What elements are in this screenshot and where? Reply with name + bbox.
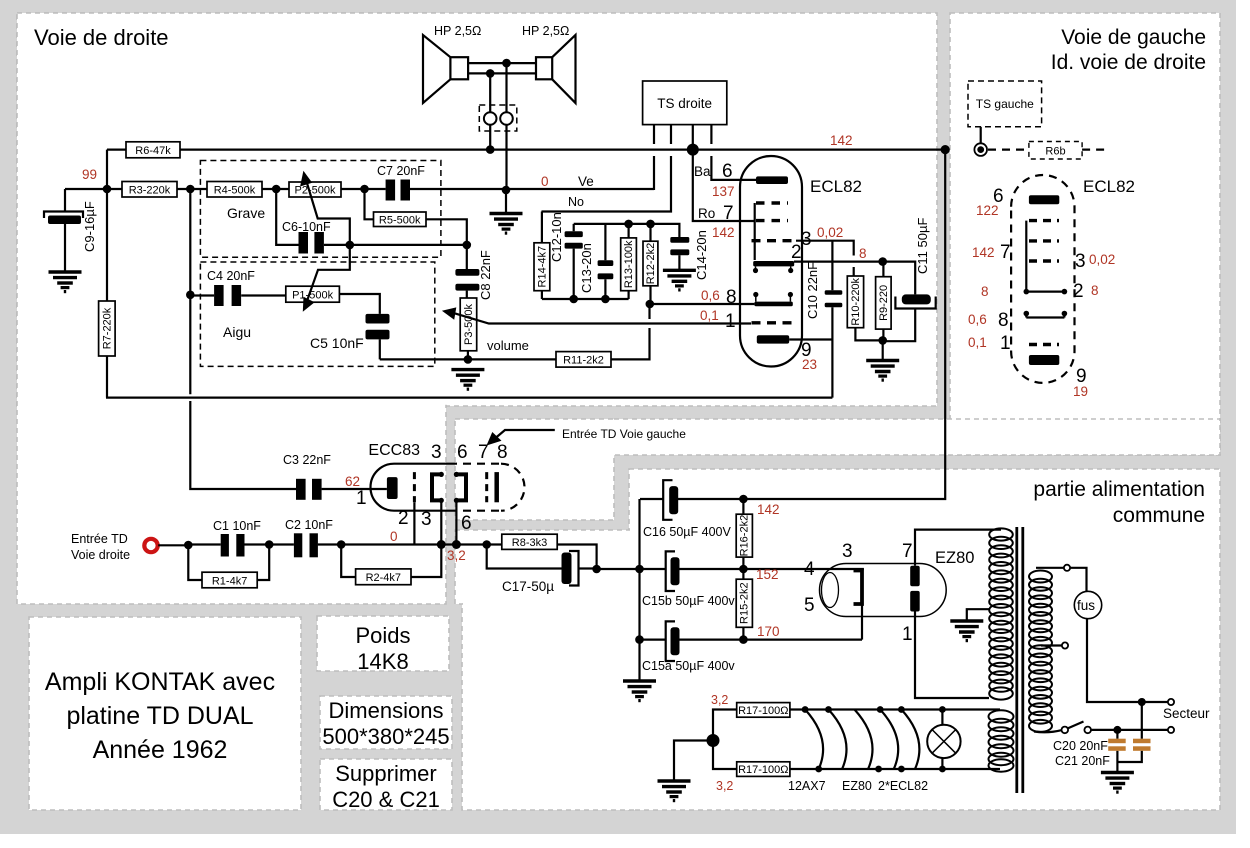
- wire volume ground row: [380, 304, 650, 359]
- cathode bracket pin3: [432, 474, 441, 500]
- connector: [1025, 221, 1027, 292]
- svg-text:23: 23: [802, 357, 817, 372]
- svg-text:R7-220k: R7-220k: [102, 307, 114, 349]
- svg-text:Dimensions: Dimensions: [329, 698, 444, 723]
- junction: [360, 185, 369, 194]
- transformer core: [1017, 527, 1023, 793]
- grid dash pin7: [485, 472, 488, 502]
- ground under P3: [451, 370, 484, 390]
- svg-text:Supprimer: Supprimer: [335, 761, 436, 786]
- svg-text:3: 3: [421, 509, 432, 530]
- svg-text:Grave: Grave: [227, 205, 265, 221]
- capacitor C21: [1117, 702, 1141, 762]
- svg-text:C16 50µF 400V: C16 50µF 400V: [643, 525, 731, 539]
- capacitor C9: [44, 212, 83, 219]
- svg-text:7: 7: [723, 203, 734, 224]
- svg-text:commune: commune: [1113, 504, 1205, 527]
- svg-text:R6-47k: R6-47k: [135, 145, 171, 157]
- white panel: Dimensions: [320, 696, 452, 749]
- svg-text:EZ80: EZ80: [935, 549, 974, 567]
- anode bar pin1: [387, 477, 398, 499]
- mains switch: [1034, 730, 1062, 732]
- svg-text:99: 99: [82, 167, 97, 182]
- wire heater bottom line: [790, 768, 1000, 770]
- svg-text:8: 8: [1091, 283, 1099, 298]
- pin2 drop: [413, 502, 415, 544]
- resistor R3: [122, 182, 177, 198]
- svg-text:142: 142: [972, 245, 995, 260]
- svg-text:TS droite: TS droite: [657, 96, 712, 111]
- resistor R9: [876, 277, 892, 329]
- wiper arrow P1: [308, 245, 350, 300]
- resistor R8: [502, 534, 557, 549]
- resistor R10: [847, 276, 863, 328]
- white panel: top main (voie de droite): [17, 13, 937, 406]
- svg-text:3: 3: [842, 541, 853, 562]
- wire mains mid tap: [1041, 644, 1062, 646]
- wire mains top tap: [1036, 567, 1064, 569]
- svg-text:Ve: Ve: [578, 174, 594, 189]
- connector circles: [484, 112, 497, 125]
- svg-text:Ba: Ba: [694, 164, 711, 179]
- capacitor C17: [487, 545, 597, 569]
- wire C15a row: [640, 638, 863, 640]
- svg-text:P2-500k: P2-500k: [295, 185, 336, 197]
- capacitor C8: [466, 245, 468, 269]
- svg-text:0,1: 0,1: [700, 308, 719, 323]
- resistor R13: [627, 224, 629, 299]
- svg-text:6: 6: [457, 442, 468, 463]
- svg-text:HP 2,5Ω: HP 2,5Ω: [434, 24, 481, 38]
- wire C15b row: [597, 568, 864, 570]
- junction: [878, 257, 887, 266]
- resistor R7: [106, 189, 108, 398]
- svg-text:C20 20nF: C20 20nF: [1053, 739, 1108, 753]
- capacitor C15a: [666, 621, 675, 661]
- svg-text:R16-2k2: R16-2k2: [739, 515, 751, 557]
- svg-text:0: 0: [541, 174, 549, 189]
- capacitor C10: [831, 241, 833, 398]
- wire C6 branch: [276, 189, 467, 245]
- transformer heater winding: [989, 710, 1014, 771]
- junction: [103, 185, 112, 194]
- wire pin2 row: [794, 262, 915, 295]
- resistor R5: [374, 212, 427, 227]
- dashed box Grave: [200, 161, 441, 258]
- tube EZ80 envelope: [820, 564, 947, 617]
- svg-text:Aigu: Aigu: [223, 324, 251, 340]
- junction: [739, 565, 748, 574]
- transformer HT winding: [989, 528, 1013, 699]
- capacitor C16: [640, 498, 663, 500]
- ground under C15: [623, 681, 656, 701]
- svg-text:R1-4k7: R1-4k7: [212, 575, 247, 587]
- transformer TS gauche: [968, 81, 1042, 127]
- triode grid dashes: [756, 201, 788, 204]
- triode connector: [754, 203, 756, 260]
- wire HT vertical: [678, 150, 945, 499]
- svg-text:Ampli KONTAK avec: Ampli KONTAK avec: [45, 668, 275, 696]
- svg-text:C9-16µF: C9-16µF: [82, 201, 97, 252]
- wire pin3 to R10: [796, 241, 854, 276]
- wire R6 left leg: [106, 150, 108, 189]
- svg-text:C11 50µF: C11 50µF: [915, 218, 930, 274]
- ground under C20 C21: [1101, 773, 1134, 793]
- resistor R4: [207, 182, 262, 198]
- svg-text:62: 62: [345, 474, 360, 489]
- svg-text:R13-100k: R13-100k: [623, 240, 635, 288]
- resistor R17 top: [713, 710, 737, 741]
- svg-text:1: 1: [725, 311, 736, 332]
- svg-text:C6-10nF: C6-10nF: [282, 220, 331, 234]
- svg-text:2: 2: [398, 508, 409, 529]
- wire 142 bus: [107, 149, 945, 151]
- svg-text:R15-2k2: R15-2k2: [739, 582, 751, 624]
- dashed box Aigu: [200, 262, 434, 366]
- svg-text:C15b 50µF 400v: C15b 50µF 400v: [642, 594, 735, 608]
- svg-text:6: 6: [722, 161, 733, 182]
- ground under R9: [882, 340, 884, 360]
- svg-text:R5-500k: R5-500k: [379, 214, 421, 226]
- svg-text:2: 2: [1073, 281, 1084, 302]
- svg-text:R2-4k7: R2-4k7: [366, 572, 401, 584]
- wire filter bottom row: [542, 298, 629, 300]
- white panel: right (voie de gauche): [950, 13, 1220, 455]
- wire bottom return: [106, 397, 832, 399]
- potentiometer P3 volume: [460, 298, 477, 351]
- svg-text:12AX7: 12AX7: [788, 779, 826, 793]
- EZ80 cathode bracket: [854, 571, 863, 605]
- svg-text:6: 6: [461, 513, 472, 534]
- TS gauche pin: [980, 127, 982, 144]
- pin6 drop: [455, 500, 457, 544]
- svg-text:1: 1: [902, 624, 913, 645]
- capacitor C9 wire: [64, 189, 66, 212]
- wire vertical x190: [190, 189, 296, 489]
- svg-text:C12-10n: C12-10n: [549, 212, 564, 262]
- ground under C14: [663, 270, 696, 290]
- wire input line: [158, 543, 502, 546]
- svg-text:19: 19: [1073, 384, 1088, 399]
- svg-text:P3-500k: P3-500k: [463, 304, 475, 345]
- svg-text:3: 3: [431, 442, 442, 463]
- fuse: [1074, 591, 1101, 618]
- transformer TS droite: [643, 81, 727, 125]
- junction: [601, 295, 610, 304]
- svg-text:Voie de droite: Voie de droite: [34, 25, 169, 50]
- svg-text:152: 152: [756, 567, 779, 582]
- junction: [272, 185, 281, 194]
- svg-text:R3-220k: R3-220k: [129, 185, 171, 197]
- svg-text:8: 8: [981, 284, 989, 299]
- wire EZ80 anode top: [915, 530, 1001, 566]
- svg-text:No: No: [568, 195, 584, 209]
- junction: [186, 185, 195, 194]
- resistor R14: [541, 212, 543, 300]
- svg-text:1: 1: [1000, 333, 1011, 354]
- svg-text:0,02: 0,02: [1089, 252, 1115, 267]
- svg-text:C3 22nF: C3 22nF: [283, 453, 331, 467]
- resistor R12: [649, 224, 651, 304]
- tube ECC83 envelope: [371, 464, 450, 511]
- svg-text:ECL82: ECL82: [1083, 177, 1135, 196]
- svg-text:C20 & C21: C20 & C21: [332, 787, 440, 812]
- svg-text:8: 8: [998, 310, 1009, 331]
- junction: [184, 541, 193, 550]
- junction: [646, 300, 655, 309]
- capacitor C11: [902, 294, 931, 304]
- svg-text:C10 22nF: C10 22nF: [805, 262, 820, 319]
- svg-text:8: 8: [726, 287, 737, 308]
- svg-text:R6b: R6b: [1045, 146, 1065, 158]
- capacitor C14: [670, 237, 689, 243]
- junction: [186, 291, 195, 300]
- svg-text:R11-2k2: R11-2k2: [563, 355, 604, 367]
- junction: [635, 635, 644, 644]
- pentode grid dashes pin3: [752, 239, 797, 242]
- potentiometer P1: [286, 286, 340, 302]
- heater bar 6: [1029, 195, 1059, 204]
- junction: [346, 241, 355, 250]
- svg-text:ECC83: ECC83: [368, 442, 420, 459]
- svg-text:142: 142: [712, 225, 735, 240]
- white panel: strip entree TD gauche: [455, 419, 614, 520]
- resistor R2: [341, 545, 441, 578]
- svg-text:C21 20nF: C21 20nF: [1055, 754, 1110, 768]
- resistor R11: [556, 352, 611, 368]
- resistor R5 branch: [365, 189, 467, 245]
- svg-text:8: 8: [859, 246, 867, 261]
- wire filter top row: [574, 224, 680, 237]
- svg-text:ECL82: ECL82: [810, 177, 862, 196]
- svg-text:volume: volume: [487, 338, 529, 353]
- junction: [265, 540, 274, 549]
- junctions heater bottom: [815, 766, 822, 773]
- filament arcs: [805, 710, 823, 770]
- svg-text:EZ80: EZ80: [842, 779, 872, 793]
- junction on bus: [486, 145, 495, 154]
- resistor R15: [742, 569, 744, 640]
- svg-text:500*380*245: 500*380*245: [322, 724, 449, 749]
- junction: [463, 241, 472, 250]
- svg-text:Voie de gauche: Voie de gauche: [1061, 26, 1206, 49]
- svg-text:Voie droite: Voie droite: [71, 548, 130, 562]
- grid dashes pin1: [752, 321, 797, 324]
- heater chain junction: [707, 734, 720, 747]
- svg-text:Poids: Poids: [355, 623, 410, 648]
- svg-text:3: 3: [1075, 251, 1086, 272]
- svg-text:Secteur: Secteur: [1163, 706, 1210, 721]
- lamp: [941, 710, 943, 770]
- junction: [502, 59, 511, 68]
- svg-text:1: 1: [356, 488, 367, 509]
- svg-text:14K8: 14K8: [357, 649, 408, 674]
- svg-text:C15a 50µF 400v: C15a 50µF 400v: [642, 659, 735, 673]
- white panel: power supply: [629, 469, 1220, 810]
- svg-text:C13-20n: C13-20n: [579, 243, 594, 293]
- wire speaker links: [468, 63, 536, 73]
- svg-text:0: 0: [390, 529, 398, 544]
- junction: [569, 295, 578, 304]
- junction Ve: [502, 186, 511, 195]
- capacitor C15b: [666, 551, 675, 591]
- svg-text:R10-220k: R10-220k: [850, 277, 862, 325]
- svg-text:Année 1962: Année 1962: [93, 736, 228, 764]
- wire heater top line: [790, 708, 1000, 710]
- junction: [739, 635, 748, 644]
- svg-text:142: 142: [757, 502, 780, 517]
- junction big: [687, 144, 699, 156]
- TS pin 1: [653, 125, 655, 191]
- junction: [646, 220, 655, 229]
- heater bar pin9: [757, 335, 789, 343]
- junction: [739, 495, 748, 504]
- svg-text:C7 20nF: C7 20nF: [377, 164, 425, 178]
- svg-text:P1-500k: P1-500k: [292, 290, 333, 302]
- wire EZ80 anode bottom: [915, 612, 989, 699]
- resistor R16: [742, 499, 744, 569]
- resistor R6: [126, 142, 180, 158]
- svg-text:0,1: 0,1: [968, 335, 987, 350]
- svg-text:fus: fus: [1077, 598, 1095, 613]
- svg-text:Entrée TD: Entrée TD: [71, 532, 128, 546]
- svg-text:R17-100Ω: R17-100Ω: [738, 764, 788, 776]
- svg-text:0,02: 0,02: [817, 225, 843, 240]
- capacitor C5: [339, 294, 379, 359]
- svg-text:R8-3k3: R8-3k3: [512, 537, 547, 549]
- TS pin 3: [693, 125, 755, 222]
- svg-text:R14-4k7: R14-4k7: [537, 246, 549, 288]
- white panel: Supprimer: [320, 759, 452, 810]
- wire heater ground: [674, 741, 713, 781]
- ground HT center tap: [967, 609, 990, 620]
- capacitor C20: [1116, 730, 1118, 772]
- junction: [592, 565, 601, 574]
- svg-text:C5 10nF: C5 10nF: [310, 335, 364, 351]
- grid bar pin8: [754, 302, 792, 307]
- svg-text:Ro: Ro: [698, 206, 715, 221]
- transformer mains winding: [1029, 571, 1052, 732]
- junction: [635, 565, 644, 574]
- capacitor C12: [573, 224, 575, 299]
- svg-text:platine TD DUAL: platine TD DUAL: [66, 702, 253, 730]
- wire pin9: [789, 338, 832, 340]
- junction: [486, 69, 495, 78]
- wire filter left vertical: [638, 499, 640, 680]
- svg-text:C4 20nF: C4 20nF: [207, 269, 255, 283]
- wiper arrow volume to pin1: [455, 313, 751, 323]
- ring junction: [974, 143, 987, 156]
- heater bar pin6: [756, 176, 788, 184]
- svg-text:R4-500k: R4-500k: [214, 185, 256, 197]
- white panel: Ampli KONTAK text: [29, 617, 301, 810]
- junction: [337, 540, 346, 549]
- TS pin 4: [711, 125, 757, 180]
- ground under C9: [49, 272, 82, 292]
- svg-text:0,6: 0,6: [701, 288, 720, 303]
- svg-text:8: 8: [497, 442, 508, 463]
- svg-text:7: 7: [902, 541, 913, 562]
- junction: [878, 336, 887, 345]
- svg-text:C14-20n: C14-20n: [694, 230, 709, 280]
- white panel: left column: [17, 13, 446, 604]
- pin3 drop: [440, 500, 442, 544]
- svg-text:C1 10nF: C1 10nF: [213, 519, 261, 533]
- junction: [1113, 726, 1121, 734]
- svg-text:partie alimentation: partie alimentation: [1033, 478, 1205, 501]
- svg-text:142: 142: [830, 133, 853, 148]
- cathode row 2: [1026, 291, 1064, 293]
- EZ80 plates: [910, 566, 920, 586]
- svg-text:C17-50µ: C17-50µ: [502, 579, 554, 594]
- svg-text:2*ECL82: 2*ECL82: [878, 779, 928, 793]
- resistor R6b dashed: [988, 149, 1029, 151]
- junction HT feed: [941, 145, 950, 154]
- wiper arrow P2: [307, 182, 350, 245]
- svg-text:137: 137: [712, 184, 735, 199]
- heater bar 9: [1029, 355, 1059, 365]
- connector dashed box: [479, 105, 517, 131]
- cathode bracket pin6: [456, 474, 466, 500]
- tube ECL82 right envelope: [740, 156, 802, 367]
- svg-text:Entrée TD Voie gauche: Entrée TD Voie gauche: [562, 427, 686, 441]
- wire fuse down to secteur: [1087, 619, 1138, 702]
- svg-text:3,2: 3,2: [711, 693, 728, 707]
- junctions heater top: [802, 706, 809, 713]
- grid dashes 1: [1029, 343, 1059, 346]
- svg-text:R17-100Ω: R17-100Ω: [738, 705, 788, 717]
- svg-text:R9-220: R9-220: [878, 285, 890, 321]
- svg-text:3,2: 3,2: [716, 779, 733, 793]
- TS pin 2: [542, 125, 672, 212]
- ground under Ve: [490, 214, 523, 234]
- junction: [624, 220, 633, 229]
- tube ECL82 left envelope dashed: [1011, 175, 1074, 383]
- wire input row y189: [65, 188, 654, 190]
- wire speaker drops: [490, 63, 506, 190]
- svg-text:4: 4: [804, 559, 815, 580]
- svg-text:3,2: 3,2: [447, 548, 466, 563]
- svg-text:R12-2k2: R12-2k2: [645, 243, 657, 285]
- svg-text:C8 22nF: C8 22nF: [478, 250, 493, 300]
- junction pins: [437, 540, 446, 549]
- wire 0,6 row: [650, 303, 755, 305]
- svg-text:Id. voie de droite: Id. voie de droite: [1051, 51, 1206, 74]
- resistor R17 bottom: [713, 741, 737, 770]
- white panel: Poids: [317, 616, 449, 671]
- svg-text:5: 5: [804, 595, 815, 616]
- grid dashes: [1029, 219, 1059, 222]
- potentiometer P2: [289, 182, 341, 197]
- svg-text:TS gauche: TS gauche: [976, 97, 1034, 111]
- junction: [464, 355, 473, 364]
- resistor R1: [188, 545, 269, 581]
- anode bar pin8: [494, 472, 499, 502]
- svg-text:122: 122: [976, 203, 999, 218]
- svg-text:3: 3: [801, 229, 812, 250]
- grid dash pin2: [413, 472, 416, 502]
- svg-text:HP 2,5Ω: HP 2,5Ω: [522, 24, 569, 38]
- wire EZ80 cathode: [861, 604, 863, 640]
- grid row 8: [1026, 315, 1064, 318]
- svg-text:170: 170: [757, 624, 780, 639]
- svg-text:C2 10nF: C2 10nF: [285, 518, 333, 532]
- svg-text:7: 7: [1000, 242, 1011, 263]
- svg-text:0,6: 0,6: [968, 312, 987, 327]
- grid dashes 3: [1029, 259, 1059, 262]
- svg-text:2: 2: [791, 242, 802, 263]
- cathode bar pin2: [753, 261, 794, 266]
